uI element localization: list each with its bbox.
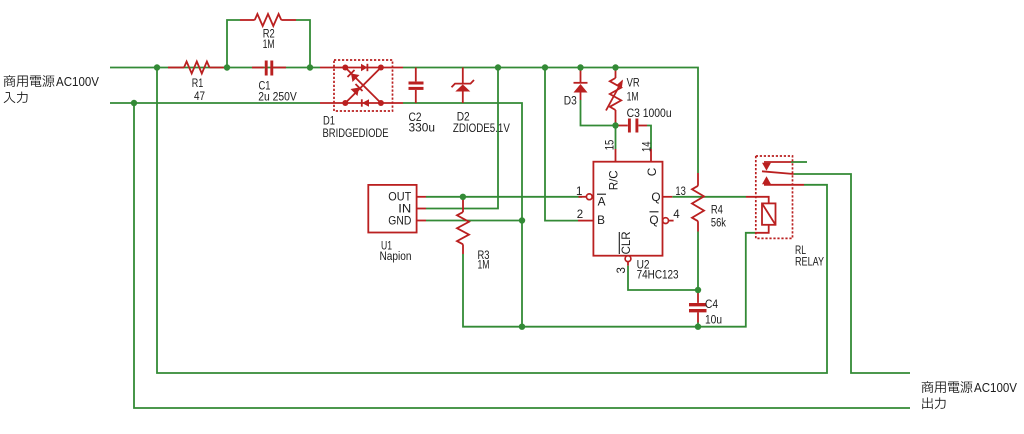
svg-text:1M: 1M: [263, 37, 275, 51]
svg-text:15: 15: [604, 140, 616, 151]
svg-text:Q: Q: [649, 213, 658, 227]
svg-text:1: 1: [576, 186, 582, 198]
svg-text:13: 13: [675, 186, 686, 198]
svg-text:R4: R4: [711, 202, 723, 216]
svg-text:CLR: CLR: [619, 231, 633, 254]
svg-text:R1: R1: [192, 76, 204, 90]
svg-text:B: B: [597, 213, 605, 227]
svg-text:RELAY: RELAY: [795, 255, 824, 269]
svg-text:2u 250V: 2u 250V: [258, 89, 297, 103]
svg-text:BRIDGEDIODE: BRIDGEDIODE: [323, 126, 389, 140]
svg-text:R/C: R/C: [606, 170, 620, 190]
svg-text:D3: D3: [564, 94, 577, 108]
svg-text:AC100V: AC100V: [974, 381, 1018, 395]
svg-text:14: 14: [641, 141, 653, 152]
svg-text:330u: 330u: [409, 121, 436, 135]
svg-text:74HC123: 74HC123: [637, 267, 679, 281]
svg-text:1M: 1M: [627, 89, 639, 103]
svg-text:1M: 1M: [478, 258, 490, 272]
svg-text:56k: 56k: [711, 215, 727, 229]
svg-text:2: 2: [577, 209, 583, 221]
svg-text:47: 47: [194, 89, 205, 103]
svg-text:AC100V: AC100V: [56, 75, 100, 89]
svg-text:4: 4: [673, 209, 680, 221]
svg-text:VR: VR: [627, 76, 640, 90]
svg-text:GND: GND: [388, 213, 411, 227]
svg-text:C: C: [645, 167, 659, 176]
svg-text:3: 3: [616, 267, 628, 273]
svg-text:Napion: Napion: [380, 249, 412, 263]
svg-text:10u: 10u: [705, 312, 722, 326]
svg-text:C3 1000u: C3 1000u: [627, 106, 672, 120]
svg-text:A: A: [598, 195, 606, 209]
svg-text:Q: Q: [651, 190, 660, 204]
svg-text:C4: C4: [705, 297, 718, 311]
svg-text:ZDIODE5.1V: ZDIODE5.1V: [453, 121, 511, 135]
